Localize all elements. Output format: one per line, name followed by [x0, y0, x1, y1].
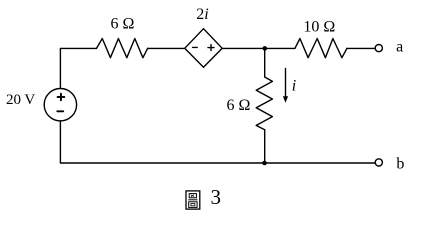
- node junction dot (top): [263, 46, 268, 51]
- wire from dependent source to node at top of 6-ohm vertical resistor and on to 10-ohm resistor: [222, 47, 295, 49]
- wire from top node down to vertical resistor: [264, 48, 266, 77]
- svg-text:i: i: [292, 77, 296, 94]
- terminal a (open circle): [375, 45, 382, 52]
- wire from bottom node to terminal b: [265, 162, 376, 164]
- svg-text:3: 3: [211, 185, 222, 209]
- svg-text:20 V: 20 V: [6, 92, 35, 108]
- svg-text:6 Ω: 6 Ω: [110, 16, 134, 33]
- plus sign inside voltage source: [58, 94, 65, 101]
- resistor R2 10 ohm (top right): [295, 39, 347, 58]
- terminal b (open circle): [375, 159, 382, 166]
- wire from R1 to dependent source: [148, 47, 185, 49]
- caption: Chinese character Tu (figure) drawn as strokes: [186, 191, 200, 209]
- wire left top: from voltage source top up and right to 6-ohm resistor: [60, 48, 96, 88]
- node junction dot (bottom): [262, 161, 267, 166]
- svg-text:a: a: [396, 39, 403, 56]
- plus sign inside dependent source: [208, 45, 214, 51]
- voltage source V1 20V (circle): [44, 89, 76, 121]
- resistor R3 6 ohm (vertical): [256, 77, 272, 130]
- current arrow i (pointing down): [283, 69, 288, 103]
- svg-text:b: b: [396, 156, 404, 173]
- wire from vertical resistor to bottom node: [264, 130, 266, 163]
- svg-text:2i: 2i: [196, 6, 208, 23]
- wire from voltage source bottom down and right along bottom rail to node: [60, 121, 264, 163]
- svg-text:10 Ω: 10 Ω: [303, 19, 335, 36]
- resistor R1 6 ohm (top left): [97, 39, 148, 58]
- wire from R2 to terminal a: [347, 47, 375, 49]
- minus sign inside voltage source: [57, 110, 63, 112]
- minus sign inside dependent source: [193, 46, 198, 48]
- svg-text:6 Ω: 6 Ω: [227, 97, 251, 114]
- dependent source U1 (2i, diamond): [185, 29, 223, 68]
